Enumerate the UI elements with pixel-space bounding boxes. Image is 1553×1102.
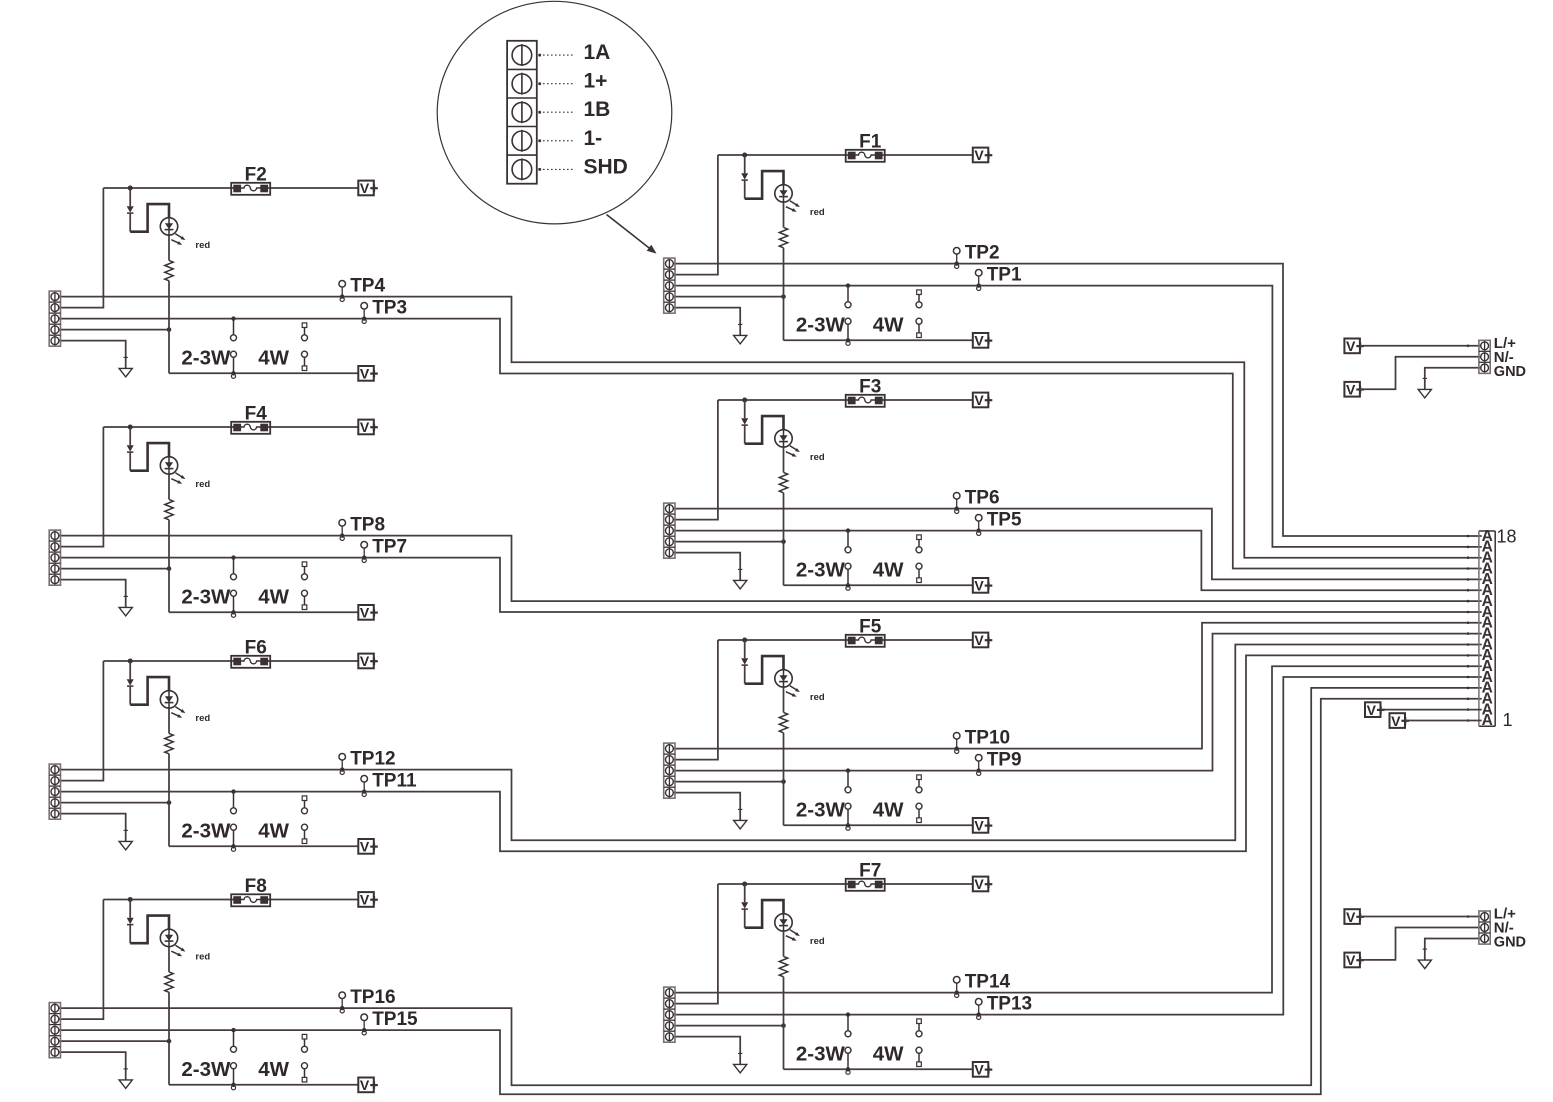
resistor (LED series) channel 6 <box>165 733 173 753</box>
svg-text:TP10: TP10 <box>965 727 1010 748</box>
svg-text:1: 1 <box>1503 710 1513 730</box>
wire: N/- feed <box>1360 928 1481 960</box>
V+ supply (fuse F1 output) <box>973 147 993 163</box>
wire: channel 1 shield to ground <box>672 308 740 336</box>
blocking diode (channel 2) <box>127 188 134 232</box>
balloon leader 1B <box>538 98 610 121</box>
wire: GND feed <box>1425 939 1481 960</box>
wire: thick link diode to LED F6 <box>130 677 169 705</box>
fuse F3 <box>846 377 885 407</box>
wire: N/- feed <box>1360 357 1481 389</box>
wire: L/+ feed <box>1360 915 1481 918</box>
svg-text:1-: 1- <box>584 127 603 150</box>
jumper 4W (channel 6) <box>258 796 307 844</box>
wire: channel 4 minus net (pin4) <box>58 566 172 571</box>
wire: fuse feed net F7 <box>672 884 973 1004</box>
test point TP12 <box>339 748 396 774</box>
svg-text:red: red <box>195 479 210 490</box>
V+ supply (X1 pin 1) <box>1390 713 1482 729</box>
svg-text:4W: 4W <box>873 313 904 336</box>
wire: bottom V+ rail F2 <box>169 372 358 374</box>
V+ supply (fuse F8 output) <box>358 892 378 908</box>
wire: channel 4 A net (pin1) <box>58 536 1482 602</box>
svg-text:TP12: TP12 <box>350 748 395 769</box>
wire: channel 3 A net (pin1) <box>672 509 1481 580</box>
svg-text:4W: 4W <box>873 1042 904 1065</box>
wire: bottom V+ rail F3 <box>784 584 973 586</box>
wire: channel 4 shield to ground <box>58 580 126 608</box>
svg-text:TP16: TP16 <box>350 987 395 1008</box>
label X1 pin 18 <box>1497 527 1517 547</box>
wire: LED/resistor branch F6 <box>168 708 170 846</box>
blocking diode (channel 6) <box>127 661 134 705</box>
balloon arrow <box>607 215 657 254</box>
svg-text:V: V <box>360 605 370 621</box>
balloon terminal block (magnified) <box>507 41 537 184</box>
wire: fuse feed net F6 <box>58 661 359 781</box>
svg-text:4W: 4W <box>258 346 289 369</box>
wire: channel 8 A net (pin1) <box>58 688 1482 1085</box>
svg-text:red: red <box>810 936 825 947</box>
LED (red) channel 8 <box>160 929 210 962</box>
node: diode branch junction F4 <box>128 425 133 430</box>
svg-text:TP15: TP15 <box>372 1009 418 1030</box>
test point TP9 <box>975 749 1021 775</box>
fuse F7 <box>846 861 885 891</box>
wire: bottom V+ rail F8 <box>169 1084 358 1086</box>
terminal block J5 (5-pin) <box>664 743 675 798</box>
node: diode branch junction F6 <box>128 659 133 664</box>
svg-text:V: V <box>360 180 370 196</box>
wire: bottom V+ rail F1 <box>784 339 973 341</box>
svg-text:GND: GND <box>1494 935 1526 951</box>
balloon leader 1- <box>538 127 602 150</box>
wire: GND feed <box>1425 368 1481 389</box>
terminal block J7 (5-pin) <box>664 987 675 1042</box>
V+ supply (jumper rail F2) <box>358 366 378 382</box>
svg-text:V: V <box>360 366 370 382</box>
V+ supply (jumper rail F4) <box>358 605 378 621</box>
V+ supply (power L/+) <box>1344 338 1364 354</box>
V+ supply (power N/-) <box>1344 952 1364 968</box>
jumper 4W (channel 2) <box>258 323 307 371</box>
wire: channel 5 minus net (pin4) <box>672 779 786 784</box>
fuse F6 <box>231 638 270 668</box>
test point TP15 <box>361 1009 418 1035</box>
svg-text:V: V <box>1346 909 1356 925</box>
jumper 2-3W (channel 6) <box>181 789 236 851</box>
svg-text:TP11: TP11 <box>372 770 417 791</box>
V+ supply (jumper rail F6) <box>358 839 378 855</box>
svg-text:V: V <box>360 839 370 855</box>
power terminal block (L/+ N/- GND) <box>1479 340 1490 373</box>
wire: bottom V+ rail F5 <box>784 824 973 826</box>
svg-text:F3: F3 <box>859 377 881 398</box>
wire: channel 6 B net (pin3) <box>58 655 1482 851</box>
svg-text:2-3W: 2-3W <box>181 1058 231 1081</box>
svg-text:TP13: TP13 <box>987 993 1032 1014</box>
wire: channel 8 shield to ground <box>58 1052 126 1080</box>
ground (shield, channel 7) <box>734 1053 747 1073</box>
wire: thick link diode to LED F4 <box>130 443 169 471</box>
jumper 2-3W (channel 3) <box>796 528 851 590</box>
svg-text:4W: 4W <box>258 1058 289 1081</box>
ground (shield, channel 1) <box>734 324 747 344</box>
svg-text:red: red <box>195 951 210 962</box>
node: diode branch junction F7 <box>742 882 747 887</box>
blocking diode (channel 7) <box>741 884 748 928</box>
svg-text:F8: F8 <box>245 876 267 897</box>
svg-text:TP5: TP5 <box>987 509 1022 530</box>
resistor (LED series) channel 2 <box>165 260 173 280</box>
power terminal block (L/+ N/- GND) <box>1479 911 1490 944</box>
svg-text:V: V <box>1346 952 1356 968</box>
svg-text:2-3W: 2-3W <box>796 313 846 336</box>
jumper 4W (channel 3) <box>873 535 922 583</box>
svg-text:2-3W: 2-3W <box>796 798 846 821</box>
fuse F2 <box>231 165 270 195</box>
resistor (LED series) channel 1 <box>779 227 787 247</box>
wire: channel 7 shield to ground <box>672 1037 740 1065</box>
jumper 2-3W (channel 2) <box>181 316 236 378</box>
label X1 pin 1 <box>1503 710 1513 730</box>
terminal block J3 (5-pin) <box>664 503 675 558</box>
test point TP1 <box>975 264 1022 290</box>
terminal block J6 (5-pin) <box>49 764 60 819</box>
svg-text:V: V <box>1346 382 1356 398</box>
V+ supply (X1 pin 2) <box>1365 702 1482 718</box>
svg-text:V: V <box>974 392 984 408</box>
svg-text:4W: 4W <box>258 585 289 608</box>
test point TP4 <box>339 275 386 301</box>
terminal block J4 (5-pin) <box>49 530 60 585</box>
wire: channel 4 B net (pin3) <box>58 558 1482 612</box>
wire: thick link diode to LED F1 <box>745 171 784 199</box>
wire: channel 2 minus net (pin4) <box>58 327 172 332</box>
svg-text:1A: 1A <box>584 41 611 64</box>
fuse F8 <box>231 876 270 906</box>
test point TP8 <box>339 514 385 540</box>
wire: channel 7 A net (pin1) <box>672 666 1481 992</box>
fuse F1 <box>846 132 885 162</box>
node: diode branch junction F5 <box>742 638 747 643</box>
wire: channel 6 shield to ground <box>58 814 126 842</box>
jumper 4W (channel 8) <box>258 1034 307 1082</box>
svg-text:TP6: TP6 <box>965 487 1000 508</box>
svg-text:V: V <box>1391 713 1401 729</box>
svg-text:V: V <box>360 892 370 908</box>
svg-text:V: V <box>974 333 984 349</box>
node: diode branch junction F8 <box>128 897 133 902</box>
wire: fuse feed net F5 <box>672 640 973 760</box>
wire: thick link diode to LED F8 <box>130 916 169 944</box>
svg-text:V: V <box>974 818 984 834</box>
svg-text:V: V <box>360 653 370 669</box>
test point TP6 <box>953 487 999 513</box>
svg-text:TP2: TP2 <box>965 242 1000 263</box>
svg-text:2-3W: 2-3W <box>181 346 231 369</box>
wire: channel 2 shield to ground <box>58 341 126 369</box>
wire: channel 1 minus net (pin4) <box>672 294 786 299</box>
svg-text:1+: 1+ <box>584 70 608 93</box>
resistor (LED series) channel 7 <box>779 956 787 976</box>
wire: channel 7 minus net (pin4) <box>672 1023 786 1028</box>
LED (red) channel 5 <box>775 670 825 703</box>
LED (red) channel 6 <box>160 691 210 724</box>
test point TP10 <box>953 727 1010 753</box>
wire: bottom V+ rail F6 <box>169 845 358 847</box>
jumper 4W (channel 7) <box>873 1019 922 1067</box>
wire: fuse feed net F1 <box>672 155 973 275</box>
ground (shield, channel 6) <box>119 830 132 850</box>
wire: channel 5 shield to ground <box>672 793 740 821</box>
wire: channel 8 B net (pin3) <box>58 699 1482 1094</box>
wire: channel 6 minus net (pin4) <box>58 800 172 805</box>
wire: thick link diode to LED F7 <box>745 900 784 928</box>
label GND <box>1494 364 1526 380</box>
LED (red) channel 7 <box>775 914 825 947</box>
svg-text:4W: 4W <box>258 819 289 842</box>
svg-text:1B: 1B <box>584 98 611 121</box>
ground (shield, channel 5) <box>734 809 747 829</box>
wire: LED/resistor branch F5 <box>783 687 785 825</box>
wire: channel 1 A net (pin1) <box>672 264 1481 536</box>
wire: channel 3 minus net (pin4) <box>672 539 786 544</box>
detail balloon circle <box>437 1 672 224</box>
svg-text:F6: F6 <box>245 638 267 659</box>
resistor (LED series) channel 8 <box>165 972 173 992</box>
balloon leader 1+ <box>538 70 607 93</box>
ground (power input) <box>1418 949 1431 969</box>
svg-text:V: V <box>974 578 984 594</box>
blocking diode (channel 3) <box>741 400 748 444</box>
svg-text:2-3W: 2-3W <box>796 1042 846 1065</box>
svg-text:red: red <box>810 452 825 463</box>
V+ supply (jumper rail F7) <box>973 1062 993 1078</box>
balloon leader SHD <box>538 155 628 178</box>
wire: thick link diode to LED F2 <box>130 204 169 232</box>
V+ supply (fuse F4 output) <box>358 419 378 435</box>
balloon leader 1A <box>538 41 610 64</box>
svg-text:V: V <box>1346 338 1356 354</box>
wire: thick link diode to LED F3 <box>745 416 784 444</box>
connector X1 (18-pin) <box>1479 528 1495 729</box>
terminal block J1 (5-pin) <box>664 258 675 313</box>
ground (power input) <box>1418 378 1431 398</box>
svg-text:V: V <box>1367 702 1377 718</box>
svg-text:TP8: TP8 <box>350 514 385 535</box>
fuse F5 <box>846 617 885 647</box>
label N/- <box>1494 349 1514 366</box>
svg-text:2-3W: 2-3W <box>181 819 231 842</box>
wire: channel 2 A net (pin1) <box>58 297 1482 558</box>
node: diode branch junction F1 <box>742 153 747 158</box>
wire: LED/resistor branch F1 <box>783 202 785 340</box>
test point TP5 <box>975 509 1022 535</box>
terminal block J2 (5-pin) <box>49 291 60 346</box>
wire: channel 3 shield to ground <box>672 553 740 581</box>
svg-text:V: V <box>360 1077 370 1093</box>
blocking diode (channel 5) <box>741 640 748 684</box>
svg-text:4W: 4W <box>873 798 904 821</box>
wire: LED/resistor branch F4 <box>168 474 170 612</box>
wire: bottom V+ rail F7 <box>784 1068 973 1070</box>
V+ supply (power N/-) <box>1344 382 1364 398</box>
wire junction dots at connector <box>1467 535 1470 722</box>
wire: channel 6 A net (pin1) <box>58 645 1482 841</box>
V+ supply (jumper rail F1) <box>973 333 993 349</box>
V+ supply (jumper rail F8) <box>358 1077 378 1093</box>
LED (red) channel 3 <box>775 430 825 463</box>
jumper 2-3W (channel 7) <box>796 1012 851 1074</box>
ground (shield, channel 2) <box>119 357 132 377</box>
svg-text:V: V <box>974 876 984 892</box>
jumper 4W (channel 1) <box>873 290 922 338</box>
V+ supply (jumper rail F5) <box>973 818 993 834</box>
svg-text:A: A <box>1482 528 1493 545</box>
V+ supply (fuse F6 output) <box>358 653 378 669</box>
V+ supply (fuse F3 output) <box>973 392 993 408</box>
svg-text:V: V <box>360 419 370 435</box>
svg-text:2-3W: 2-3W <box>181 585 231 608</box>
V+ supply (fuse F5 output) <box>973 632 993 648</box>
wire: L/+ feed <box>1360 345 1481 348</box>
svg-text:TP3: TP3 <box>372 297 407 318</box>
svg-text:F1: F1 <box>859 132 882 153</box>
wire: channel 7 B net (pin3) <box>672 677 1481 1015</box>
wire: LED/resistor branch F7 <box>783 931 785 1069</box>
test point TP3 <box>361 297 407 323</box>
svg-text:SHD: SHD <box>584 155 628 178</box>
label L/+ <box>1494 335 1516 352</box>
jumper 2-3W (channel 5) <box>796 768 851 830</box>
label N/- <box>1494 920 1514 937</box>
node: diode branch junction F2 <box>128 186 133 191</box>
svg-text:TP14: TP14 <box>965 971 1011 992</box>
jumper 2-3W (channel 8) <box>181 1028 236 1090</box>
test point TP16 <box>339 987 396 1013</box>
ground (shield, channel 4) <box>119 596 132 616</box>
svg-text:red: red <box>195 240 210 251</box>
V+ supply (fuse F2 output) <box>358 180 378 196</box>
svg-text:TP9: TP9 <box>987 749 1022 770</box>
jumper 2-3W (channel 1) <box>796 283 851 345</box>
LED (red) channel 2 <box>160 218 210 251</box>
svg-text:2-3W: 2-3W <box>796 558 846 581</box>
wire: LED/resistor branch F8 <box>168 947 170 1085</box>
test point TP7 <box>361 536 407 562</box>
jumper 4W (channel 5) <box>873 775 922 823</box>
svg-text:V: V <box>974 632 984 648</box>
blocking diode (channel 1) <box>741 155 748 199</box>
label L/+ <box>1494 906 1516 923</box>
test point TP2 <box>953 242 999 268</box>
node: diode branch junction F3 <box>742 398 747 403</box>
V+ supply (power L/+) <box>1344 909 1364 925</box>
svg-text:F5: F5 <box>859 617 882 638</box>
resistor (LED series) channel 4 <box>165 499 173 519</box>
blocking diode (channel 4) <box>127 427 134 471</box>
svg-text:TP1: TP1 <box>987 264 1022 285</box>
svg-text:V: V <box>974 1062 984 1078</box>
V+ supply (fuse F7 output) <box>973 876 993 892</box>
wire: channel 2 B net (pin3) <box>58 319 1482 569</box>
ground (shield, channel 8) <box>119 1069 132 1089</box>
wire: bottom V+ rail F4 <box>169 611 358 613</box>
jumper 2-3W (channel 4) <box>181 555 236 617</box>
svg-text:TP7: TP7 <box>372 536 407 557</box>
LED (red) channel 4 <box>160 457 210 490</box>
svg-text:GND: GND <box>1494 364 1526 380</box>
svg-text:red: red <box>810 207 825 218</box>
wire: channel 5 A net (pin1) <box>672 623 1481 749</box>
wire: fuse feed net F3 <box>672 400 973 520</box>
svg-text:red: red <box>810 692 825 703</box>
svg-text:18: 18 <box>1497 527 1517 547</box>
wire: LED/resistor branch F2 <box>168 235 170 373</box>
wire: channel 8 minus net (pin4) <box>58 1039 172 1044</box>
wire: fuse feed net F8 <box>58 900 359 1020</box>
test point TP11 <box>361 770 417 796</box>
svg-text:F7: F7 <box>859 861 881 882</box>
svg-text:F2: F2 <box>245 165 267 186</box>
wire: channel 3 B net (pin3) <box>672 531 1481 591</box>
svg-text:red: red <box>195 713 210 724</box>
svg-text:V: V <box>974 147 984 163</box>
wire: thick link diode to LED F5 <box>745 656 784 684</box>
test point TP14 <box>953 971 1010 997</box>
resistor (LED series) channel 5 <box>779 712 787 732</box>
wire: fuse feed net F2 <box>58 188 359 308</box>
V+ supply (jumper rail F3) <box>973 578 993 594</box>
fuse F4 <box>231 404 270 434</box>
terminal block J8 (5-pin) <box>49 1003 60 1058</box>
ground (shield, channel 3) <box>734 569 747 589</box>
blocking diode (channel 8) <box>127 900 134 944</box>
wire: LED/resistor branch F3 <box>783 447 785 585</box>
label GND <box>1494 935 1526 951</box>
wire: channel 5 B net (pin3) <box>672 634 1481 771</box>
wire: fuse feed net F4 <box>58 427 359 547</box>
svg-text:F4: F4 <box>245 404 268 425</box>
svg-text:4W: 4W <box>873 558 904 581</box>
jumper 4W (channel 4) <box>258 562 307 610</box>
svg-text:TP4: TP4 <box>350 275 385 296</box>
resistor (LED series) channel 3 <box>779 472 787 492</box>
test point TP13 <box>975 993 1032 1019</box>
LED (red) channel 1 <box>775 185 825 218</box>
wire: channel 1 B net (pin3) <box>672 286 1481 547</box>
